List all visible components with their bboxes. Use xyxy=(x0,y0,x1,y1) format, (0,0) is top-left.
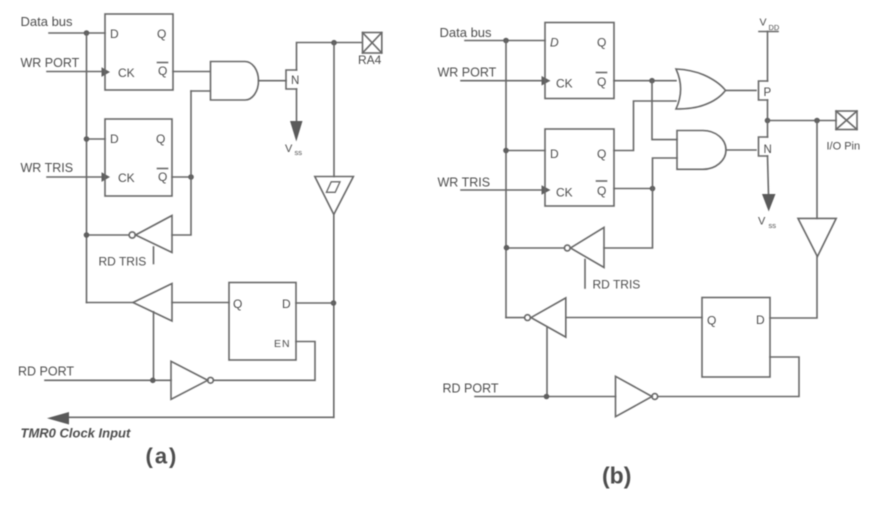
node FF2 Qbar junction (b) xyxy=(650,186,656,192)
overline Qbar FF1 (b) xyxy=(597,72,607,74)
svg-text:I/O Pin: I/O Pin xyxy=(827,141,861,153)
svg-text:Q: Q xyxy=(707,314,716,328)
label N (b) xyxy=(764,144,772,156)
node FF2 D junction (b) xyxy=(503,148,509,154)
wire latch Q to read buffer (b) xyxy=(566,317,702,319)
svg-text:D: D xyxy=(282,297,291,311)
svg-text:(b): (b) xyxy=(602,463,631,489)
label Vss (a) xyxy=(285,143,302,157)
wire Qbar to AND upper input (b) xyxy=(652,81,677,140)
wire Vdd to P source (b) xyxy=(767,32,769,82)
node RD PORT junction (b) xyxy=(544,394,550,400)
wire AND output to N gate (b) xyxy=(726,149,756,151)
node data bus junction (b) xyxy=(503,38,509,44)
arrow TMR0 (a) xyxy=(47,412,69,425)
svg-text:Q: Q xyxy=(597,184,606,198)
bubble RD PORT inverter (a) xyxy=(208,377,214,383)
label WR TRIS (b) xyxy=(438,176,491,190)
flip-flop data latch (a) xyxy=(105,14,173,90)
wire FF2 Q to OR lower input (b) xyxy=(614,101,676,151)
flip-flop TRIS latch (a) xyxy=(105,119,172,196)
svg-text:Data bus: Data bus xyxy=(440,25,493,40)
node FF2 Qbar junction (a) xyxy=(188,174,194,180)
wire FF2 Qbar output (b) xyxy=(614,188,653,190)
pin CK label FF1 (a) xyxy=(118,66,135,80)
pin D label FF2 (a) xyxy=(110,132,119,146)
latch input latch (b) xyxy=(702,298,770,378)
label TMR0 Clock Input xyxy=(21,426,131,441)
label I/O Pin (b) xyxy=(827,141,861,153)
svg-text:RD TRIS: RD TRIS xyxy=(99,255,147,269)
schmitt trigger input buffer (a) xyxy=(315,177,354,215)
pin EN label latch (a) xyxy=(274,338,291,350)
label RD PORT (a) xyxy=(18,365,74,379)
wire Qbar down to RD TRIS inverter (b) xyxy=(604,189,653,249)
pin Qbar label FF1 (a) xyxy=(158,64,167,78)
label WR TRIS (a) xyxy=(21,161,74,175)
wire data bus input (a) xyxy=(49,32,105,34)
bubble RD TRIS inverter (b) xyxy=(564,245,570,251)
svg-text:WR PORT: WR PORT xyxy=(21,56,80,70)
latch input latch (a) xyxy=(229,283,296,361)
clock arrow FF2 (a) xyxy=(102,172,111,182)
pin D label latch (a) xyxy=(282,297,291,311)
pin Q label FF1 (b) xyxy=(597,36,606,50)
wire N source down (b) xyxy=(768,156,769,194)
wire read buffer enable down (a) xyxy=(153,312,155,381)
transistor N driver (a) xyxy=(286,70,297,89)
wire data bus input (b) xyxy=(465,40,545,42)
label RA4 (a) xyxy=(358,53,382,67)
inverter RD TRIS (b) xyxy=(571,227,605,267)
label (b) xyxy=(602,463,631,489)
inverter RD TRIS (a) xyxy=(136,216,173,253)
svg-text:D: D xyxy=(756,313,765,327)
wire N drain up (a) xyxy=(297,43,363,71)
wire schmitt output to latch D (a) xyxy=(333,215,335,418)
svg-text:DD: DD xyxy=(769,23,780,32)
svg-text:EN: EN xyxy=(274,338,291,350)
svg-text:Q: Q xyxy=(157,27,166,41)
label RD TRIS (a) xyxy=(99,255,147,269)
svg-text:D: D xyxy=(110,132,119,146)
flip-flop TRIS latch (b) xyxy=(545,129,614,206)
bubble RD PORT inverter (b) xyxy=(652,394,658,400)
ground Vss arrow (a) xyxy=(290,121,303,142)
wire N source down (a) xyxy=(296,89,298,122)
wire RD PORT (a) xyxy=(45,379,171,381)
wire buffer output to latch D (b) xyxy=(770,257,817,318)
pin Qbar label FF2 (a) xyxy=(158,170,167,184)
ground Vss arrow (b) xyxy=(762,194,776,212)
wire AND gate lower input (a) xyxy=(191,90,210,92)
pin Q label FF1 (a) xyxy=(157,27,166,41)
label N (a) xyxy=(291,75,299,87)
svg-text:ss: ss xyxy=(295,148,303,157)
and-gate U1 (a) xyxy=(211,62,259,101)
node Qbar junction (b) xyxy=(649,78,655,84)
overline Qbar FF1 (a) xyxy=(158,62,168,64)
label WR PORT (b) xyxy=(438,66,497,80)
wire RD TRIS inverter output (b) xyxy=(507,247,564,249)
pin IO pad (b) xyxy=(836,111,857,130)
node latch D junction (a) xyxy=(331,300,337,306)
svg-text:RA4: RA4 xyxy=(358,53,382,67)
pin Qbar label FF2 (b) xyxy=(597,184,606,198)
wire inverter output to latch EN (b) xyxy=(658,357,799,397)
or-gate U2 (b) xyxy=(676,69,726,109)
svg-text:CK: CK xyxy=(118,171,135,185)
label WR PORT (a) xyxy=(21,56,80,70)
wire FF2 D input (b) xyxy=(506,150,545,152)
svg-text:V: V xyxy=(285,143,293,155)
wire RD TRIS tick (b) xyxy=(584,260,586,289)
wire latch Q to read buffer (a) xyxy=(172,302,229,304)
power Vdd symbol (b) xyxy=(759,17,780,33)
svg-text:N: N xyxy=(764,144,772,156)
wire WR PORT (a) xyxy=(47,71,102,73)
wire data bus vertical rail (b) xyxy=(505,41,507,318)
overline Qbar FF2 (a) xyxy=(158,168,168,170)
svg-text:WR TRIS: WR TRIS xyxy=(21,161,74,175)
pin CK label FF2 (b) xyxy=(556,186,573,200)
inverter RD PORT (a) xyxy=(171,361,208,399)
wire read buffer output to data rail (a) xyxy=(87,302,134,304)
svg-text:Q: Q xyxy=(158,64,167,78)
label RD TRIS (b) xyxy=(593,278,641,292)
wire RD TRIS tick (a) xyxy=(153,247,155,264)
svg-text:CK: CK xyxy=(556,77,573,91)
clock arrow FF1 (b) xyxy=(542,76,551,86)
wire WR PORT (b) xyxy=(461,80,542,82)
pin CK label FF2 (a) xyxy=(118,171,135,185)
wire Qbar rail to AND input and RD TRIS inverter (a) xyxy=(172,91,191,235)
svg-text:RD PORT: RD PORT xyxy=(18,365,74,379)
wire read buffer enable down (b) xyxy=(546,328,548,397)
and-gate U3 (b) xyxy=(677,131,726,170)
pin Q label FF2 (a) xyxy=(156,132,165,146)
node RD PORT junction (a) xyxy=(150,378,156,384)
svg-text:RD PORT: RD PORT xyxy=(443,382,499,396)
svg-text:Q: Q xyxy=(597,36,606,50)
pin D label FF1 (b) xyxy=(550,36,559,50)
wire FF1 Qbar to AND gate (a) xyxy=(173,71,210,73)
inverter RD PORT (b) xyxy=(616,376,653,416)
input buffer triangle (b) xyxy=(798,218,836,256)
svg-text:CK: CK xyxy=(556,186,573,200)
label (a) xyxy=(146,444,179,469)
wire FF2 D input (a) xyxy=(87,138,106,140)
svg-text:P: P xyxy=(764,87,772,99)
bubble read buffer (b) xyxy=(525,315,531,321)
svg-text:CK: CK xyxy=(118,66,135,80)
pin D label FF2 (b) xyxy=(550,147,559,161)
svg-text:WR PORT: WR PORT xyxy=(438,66,497,80)
svg-text:Q: Q xyxy=(156,132,165,146)
svg-text:V: V xyxy=(760,17,767,29)
svg-text:ss: ss xyxy=(769,221,777,230)
svg-text:D: D xyxy=(550,147,559,161)
node data bus junction (a) xyxy=(84,30,90,36)
node pin junction (a) xyxy=(331,40,337,46)
wire AND output to N gate (a) xyxy=(259,80,287,82)
node PN drain junction (b) xyxy=(765,118,771,124)
wire FF1 Qbar to OR gate (b) xyxy=(614,80,676,82)
svg-text:N: N xyxy=(291,75,299,87)
pin Qbar label FF1 (b) xyxy=(597,75,606,89)
svg-text:V: V xyxy=(758,216,766,228)
pin CK label FF1 (b) xyxy=(556,77,573,91)
pin Q label FF2 (b) xyxy=(597,147,606,161)
wire pin to input buffer (b) xyxy=(816,121,818,219)
transistor N driver (b) xyxy=(759,137,768,156)
svg-text:RD TRIS: RD TRIS xyxy=(593,278,641,292)
pin Q label latch (b) xyxy=(707,314,716,328)
pin Q label latch (a) xyxy=(233,297,242,311)
svg-text:Q: Q xyxy=(597,75,606,89)
overline Qbar FF2 (b) xyxy=(597,180,607,182)
svg-text:Q: Q xyxy=(158,170,167,184)
flip-flop data latch (b) xyxy=(545,23,614,99)
wire N drain up (b) xyxy=(767,121,769,138)
svg-text:D: D xyxy=(110,27,119,41)
pin D label FF1 (a) xyxy=(110,27,119,41)
wire latch D input (a) xyxy=(296,302,334,304)
wire TMR0 clock line (a) xyxy=(68,416,334,418)
svg-text:Q: Q xyxy=(233,297,242,311)
wire inverter output to EN (a) xyxy=(213,342,315,381)
pin D label latch (b) xyxy=(756,313,765,327)
tri-state read buffer (a) xyxy=(133,284,172,322)
node RD TRIS junction (b) xyxy=(504,245,510,251)
schmitt hysteresis symbol (a) xyxy=(326,182,340,193)
wire data bus vertical rail (a) xyxy=(86,33,88,303)
wire RD TRIS inverter output (a) xyxy=(87,234,130,236)
wire RD PORT (b) xyxy=(475,396,616,398)
label Data bus (a) xyxy=(21,14,74,29)
wire WR TRIS (a) xyxy=(47,176,102,178)
wire Qbar to AND lower input (b) xyxy=(653,158,678,189)
node IO pin junction (b) xyxy=(814,118,820,124)
svg-text:Q: Q xyxy=(597,147,606,161)
wire OR output to P gate (b) xyxy=(726,89,757,91)
clock arrow FF1 (a) xyxy=(102,67,111,77)
label P (b) xyxy=(764,87,772,99)
label Data bus (b) xyxy=(440,25,493,40)
wire read buffer output to data rail (b) xyxy=(506,317,525,319)
wire pin to schmitt trigger (a) xyxy=(333,43,335,177)
wire P drain down (b) xyxy=(767,100,769,121)
clock arrow FF2 (b) xyxy=(542,185,551,195)
svg-text:TMR0 Clock Input: TMR0 Clock Input xyxy=(21,426,131,441)
svg-text:(a): (a) xyxy=(146,444,179,469)
node FF2 D junction (a) xyxy=(84,136,90,142)
node RD TRIS junction (a) xyxy=(84,232,90,238)
pin RA4 pad (a) xyxy=(363,33,382,54)
bubble RD TRIS inverter (a) xyxy=(129,232,135,238)
svg-text:Data bus: Data bus xyxy=(21,14,74,29)
wire drain node to pin (b) xyxy=(768,120,837,122)
wire WR TRIS (b) xyxy=(461,189,542,191)
tri-state read buffer (b) xyxy=(531,298,566,337)
svg-text:WR TRIS: WR TRIS xyxy=(438,176,491,190)
transistor P driver (b) xyxy=(759,81,768,100)
wire FF2 Qbar output (a) xyxy=(172,176,191,178)
svg-text:D: D xyxy=(550,36,559,50)
label RD PORT (b) xyxy=(443,382,499,396)
label Vss (b) xyxy=(758,216,776,231)
